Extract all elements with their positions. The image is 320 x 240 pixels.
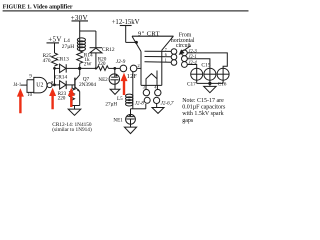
red arrow callout 2 bbox=[49, 88, 56, 110]
node collector junction dot bbox=[78, 67, 81, 70]
inductor L5 27uH bbox=[105, 94, 132, 109]
ground Q7 emitter bbox=[68, 109, 81, 115]
+5V supply bbox=[47, 35, 62, 53]
svg-text:10: 10 bbox=[27, 93, 32, 98]
svg-text:27µH: 27µH bbox=[105, 101, 117, 107]
svg-text:U2: U2 bbox=[36, 82, 43, 88]
ground NE1 bbox=[124, 127, 136, 134]
wire emitter to ground bbox=[72, 105, 80, 107]
ground NE2 bbox=[110, 89, 120, 94]
capacitor C16 bbox=[217, 68, 229, 87]
red arrow callout 1 bbox=[17, 88, 24, 113]
resistor R23 220 bbox=[58, 85, 75, 106]
from horizontal circuit callout bbox=[171, 32, 195, 55]
svg-text:3: 3 bbox=[143, 85, 145, 90]
wire +30V branch to CR12 bbox=[80, 31, 96, 48]
svg-text:J2-6,7: J2-6,7 bbox=[161, 100, 174, 106]
diode CR13 bbox=[55, 56, 80, 72]
svg-text:1: 1 bbox=[165, 57, 167, 62]
note C15-17 spark gaps bbox=[182, 98, 226, 124]
svg-text:Note: C15-17 are: Note: C15-17 are bbox=[182, 98, 224, 104]
connector J2 plug column bbox=[182, 49, 198, 67]
red arrow callout 4 bbox=[121, 73, 128, 95]
resistor R25 470 bbox=[43, 53, 58, 66]
svg-text:J4-1: J4-1 bbox=[13, 83, 22, 88]
header rule bbox=[3, 10, 249, 12]
svg-text:L4: L4 bbox=[64, 38, 70, 44]
neon lamp NE2 bbox=[98, 68, 119, 89]
wire CRT pin2 drop to L5 bbox=[132, 72, 134, 95]
red arrow callout 3 bbox=[68, 88, 75, 107]
svg-text:CR13: CR13 bbox=[56, 56, 69, 62]
note CR12-14 diode types bbox=[52, 122, 92, 133]
svg-text:L5: L5 bbox=[117, 96, 123, 102]
CRT 9 inch tube bbox=[132, 30, 174, 85]
wire J2-4 to C17 bbox=[187, 65, 196, 69]
svg-text:FIGURE 1. Video amplifier: FIGURE 1. Video amplifier bbox=[3, 4, 73, 10]
resistor R14 1k 2W bbox=[77, 51, 93, 68]
wire R25 to CR14 node bbox=[54, 67, 56, 85]
main wire collector node row bbox=[80, 64, 97, 75]
connector J2-8 bbox=[135, 97, 150, 106]
svg-text:9: 9 bbox=[29, 75, 32, 80]
node NE2 tap dot bbox=[113, 67, 116, 70]
connector CRT pin 2 bbox=[130, 63, 141, 72]
svg-text:with 1.5kV spark: with 1.5kV spark bbox=[182, 111, 223, 117]
svg-text:2: 2 bbox=[138, 63, 140, 68]
svg-text:circuit: circuit bbox=[176, 43, 191, 49]
svg-text:gaps: gaps bbox=[182, 118, 194, 124]
diode CR14 bbox=[55, 74, 75, 89]
+30V supply bbox=[71, 14, 88, 31]
node CR13 tap dot bbox=[53, 67, 56, 70]
ground J2-6,7 bbox=[152, 108, 164, 114]
svg-text:220: 220 bbox=[98, 61, 106, 67]
CRT heater filament bbox=[146, 71, 157, 86]
diode CR12 bbox=[90, 47, 115, 69]
connector CRT side pins column bbox=[171, 49, 177, 66]
svg-text:C17: C17 bbox=[187, 81, 196, 87]
svg-text:2N3904: 2N3904 bbox=[79, 82, 96, 88]
connector J2-9 bbox=[116, 59, 127, 72]
connector CRT heater pin 4 bbox=[154, 85, 161, 96]
logic gate U2 bbox=[21, 75, 55, 98]
wire J2-3 to C16 bbox=[187, 53, 227, 68]
svg-text:J2-3: J2-3 bbox=[188, 49, 197, 54]
svg-text:C15: C15 bbox=[201, 63, 210, 69]
svg-text:27µH: 27µH bbox=[62, 44, 74, 50]
svg-text:J2-1: J2-1 bbox=[188, 55, 196, 60]
node anode dot on CRT bell bbox=[135, 41, 138, 44]
svg-text:NE1: NE1 bbox=[113, 117, 123, 123]
svg-text:6: 6 bbox=[165, 52, 167, 57]
svg-text:C16: C16 bbox=[218, 81, 227, 87]
svg-text:CR12: CR12 bbox=[102, 47, 115, 53]
svg-text:2W: 2W bbox=[84, 61, 92, 67]
wire J2-1 to C15 bbox=[187, 59, 210, 68]
connector J2-6,7 bbox=[154, 97, 174, 107]
svg-text:NE2: NE2 bbox=[98, 77, 108, 83]
CRT grid electrodes bbox=[145, 47, 172, 63]
svg-text:J2-4: J2-4 bbox=[188, 61, 197, 66]
svg-text:+5V: +5V bbox=[48, 35, 61, 43]
node bus junction dot bbox=[208, 82, 211, 85]
inductor L4 27uH bbox=[62, 38, 86, 51]
svg-text:(similar to 1N914): (similar to 1N914) bbox=[52, 126, 92, 133]
node CR12 bottom junction dot bbox=[95, 67, 97, 69]
svg-text:12F: 12F bbox=[127, 73, 138, 80]
capacitor C15 bbox=[201, 63, 216, 84]
svg-text:J2-8: J2-8 bbox=[135, 101, 145, 107]
resistor R20 220 bbox=[97, 56, 120, 70]
svg-text:CR14: CR14 bbox=[55, 74, 68, 80]
node U2 output junction dot bbox=[53, 84, 56, 87]
+12-15kV supply bbox=[112, 19, 140, 42]
neon lamp NE1 bbox=[113, 109, 135, 127]
capacitor C17 bbox=[187, 68, 203, 87]
svg-text:220: 220 bbox=[58, 96, 66, 102]
svg-text:470: 470 bbox=[43, 58, 51, 64]
wire capacitor ground bus bbox=[197, 82, 223, 84]
svg-text:J2-9: J2-9 bbox=[116, 59, 126, 65]
connector CRT heater pin 3 bbox=[143, 85, 150, 96]
transistor Q7 2N3904 bbox=[75, 75, 97, 106]
ground capacitor bus bbox=[204, 83, 216, 92]
svg-text:0.01µF capacitors: 0.01µF capacitors bbox=[182, 105, 226, 111]
wire L5 bottom bus bbox=[131, 104, 146, 109]
svg-text:7: 7 bbox=[165, 47, 167, 52]
